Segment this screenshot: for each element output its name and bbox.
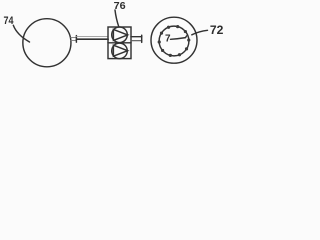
valve bottom circle <box>112 43 128 59</box>
bulb 74 circle <box>23 19 71 67</box>
valve 76 body rectangle <box>108 27 131 59</box>
svg-text:72: 72 <box>210 25 224 37</box>
bulb neck stem bottom <box>71 40 77 42</box>
valve bottom triangle <box>113 45 127 56</box>
leader line for 74 <box>13 25 29 42</box>
tube right top line <box>131 36 142 38</box>
tube left cap bar <box>75 36 77 43</box>
leader line for 72 <box>192 30 208 35</box>
valve top triangle <box>113 29 127 40</box>
tube left main line <box>76 38 108 40</box>
tube left faint top line <box>76 35 108 37</box>
needle leader inside gauge <box>171 36 187 39</box>
valve divider <box>108 42 131 44</box>
gauge scalloped inner ring <box>159 26 189 56</box>
valve top circle <box>112 27 128 43</box>
bulb neck stem top <box>71 37 77 39</box>
gauge 72 outer circle <box>151 17 197 63</box>
tube right bottom line <box>131 40 142 42</box>
tube right cap bar <box>141 35 143 42</box>
gauge ring bumps <box>158 25 191 57</box>
leader line for 76 <box>115 10 119 27</box>
